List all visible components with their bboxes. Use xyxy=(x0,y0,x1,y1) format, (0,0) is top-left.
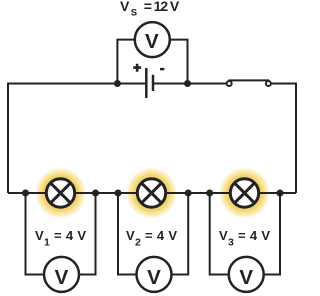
lamp L1 body xyxy=(46,179,74,207)
switch S1 left terminal xyxy=(227,81,232,86)
svg-text:V2 = 4 V: V2 = 4 V xyxy=(126,228,177,249)
voltmeter V3 branch wires xyxy=(210,193,280,275)
svg-text:= 12 V: = 12 V xyxy=(144,0,180,14)
voltmeter VS body xyxy=(135,22,170,57)
node: lamp3 left junction xyxy=(206,190,213,197)
svg-text:V: V xyxy=(120,0,130,14)
wire top-right battery to switch xyxy=(154,83,227,85)
svg-text:S: S xyxy=(131,7,137,18)
wire switch to right corner xyxy=(271,83,296,85)
voltmeter V2 branch wires xyxy=(118,193,188,275)
voltmeter V3 body xyxy=(229,257,264,292)
lamp L3 body xyxy=(230,179,258,207)
lamp L3 glow xyxy=(219,168,269,218)
wire lamp row xyxy=(8,192,296,194)
svg-text:V1 = 4 V: V1 = 4 V xyxy=(35,228,86,249)
voltmeter VS branch wires xyxy=(117,40,187,84)
lamp L2 glow xyxy=(126,168,176,218)
switch S1 blade xyxy=(229,79,270,81)
battery plus sign xyxy=(133,64,141,72)
battery B1 long plate (+) xyxy=(145,68,148,98)
voltmeter V2 body xyxy=(137,257,172,292)
node: top-right branch junction xyxy=(184,80,191,87)
battery B1 short plate (-) xyxy=(152,75,155,91)
lamp L1 cross xyxy=(51,184,70,203)
lamp L2 cross xyxy=(142,184,161,203)
voltmeter V1 branch wires xyxy=(26,193,96,275)
lamp L1 glow xyxy=(35,168,85,218)
wire right vertical xyxy=(295,83,297,194)
voltmeter V1 body xyxy=(44,257,79,292)
node: top-left branch junction xyxy=(114,80,121,87)
lamp L3 cross xyxy=(235,184,254,203)
wire left vertical xyxy=(7,83,9,194)
battery minus sign xyxy=(160,68,164,70)
lamp L2 body xyxy=(137,179,165,207)
svg-text:V: V xyxy=(239,266,253,289)
node: lamp1 right junction xyxy=(92,190,99,197)
switch S1 right terminal xyxy=(266,81,271,86)
node: lamp2 right junction xyxy=(185,190,192,197)
node: lamp1 left junction xyxy=(22,190,29,197)
svg-text:V: V xyxy=(55,266,69,289)
wire top-left xyxy=(8,83,145,85)
svg-text:V: V xyxy=(147,266,161,289)
node: lamp2 left junction xyxy=(115,190,122,197)
svg-text:V3 = 4 V: V3 = 4 V xyxy=(219,228,270,249)
node: lamp3 right junction xyxy=(277,190,284,197)
svg-text:V: V xyxy=(145,30,159,53)
